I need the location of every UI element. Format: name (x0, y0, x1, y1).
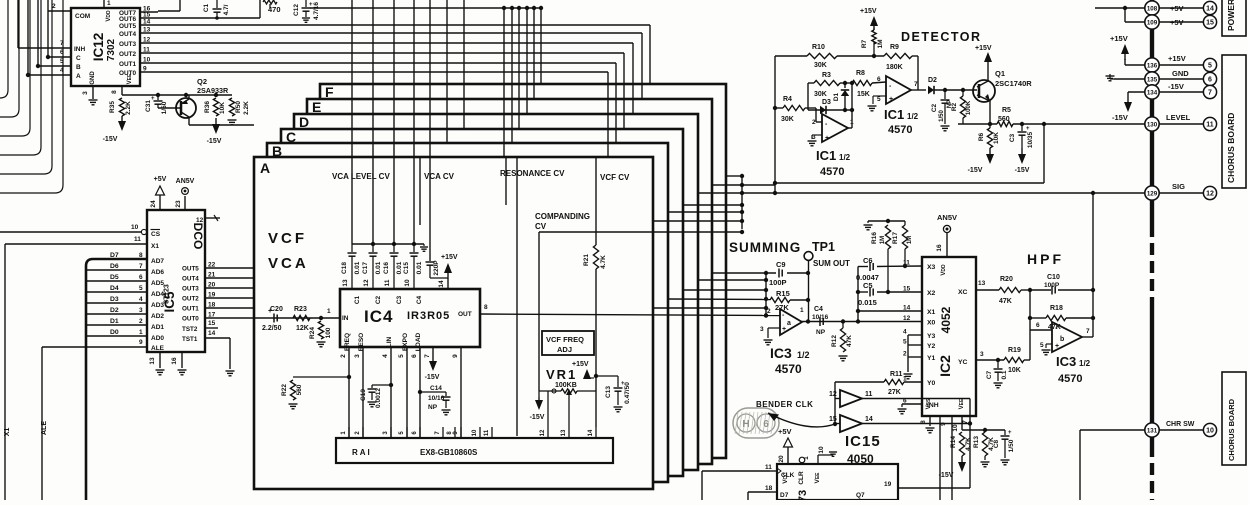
svg-text:3: 3 (82, 91, 89, 95)
svg-text:24: 24 (150, 200, 157, 208)
svg-text:AD7: AD7 (151, 258, 164, 265)
svg-text:R21: R21 (583, 254, 590, 266)
svg-text:ALE: ALE (41, 421, 48, 435)
svg-text:0.0012: 0.0012 (375, 388, 382, 408)
svg-text:+15V: +15V (1168, 54, 1186, 63)
svg-text:VR1: VR1 (546, 367, 577, 382)
svg-text:+15V: +15V (860, 8, 877, 15)
svg-text:C: C (286, 129, 296, 145)
svg-text:R7: R7 (861, 39, 868, 48)
svg-text:RESO: RESO (358, 333, 365, 351)
svg-text:DCO: DCO (191, 223, 205, 250)
svg-text:11: 11 (484, 429, 490, 436)
svg-text:AD6: AD6 (151, 269, 164, 276)
svg-text:100P: 100P (1044, 282, 1060, 289)
svg-text:R17: R17 (892, 232, 899, 244)
svg-text:DETECTOR: DETECTOR (901, 30, 982, 44)
svg-text:R4: R4 (783, 96, 792, 103)
svg-text:X1: X1 (4, 428, 11, 437)
svg-text:2: 2 (812, 119, 816, 126)
svg-text:Q2: Q2 (197, 77, 207, 86)
svg-text:20: 20 (778, 455, 785, 463)
svg-text:4570: 4570 (888, 124, 912, 136)
svg-text:100P: 100P (769, 278, 787, 287)
svg-text:OUT1: OUT1 (182, 306, 199, 313)
svg-text:FREQ: FREQ (344, 333, 351, 351)
svg-text:10: 10 (143, 57, 151, 64)
svg-text:14: 14 (208, 330, 216, 337)
svg-text:-15V: -15V (530, 414, 545, 421)
svg-text:100K: 100K (966, 100, 972, 115)
svg-text:4.7K: 4.7K (965, 437, 972, 451)
svg-text:CHR SW: CHR SW (1166, 421, 1195, 428)
svg-text:D1: D1 (833, 92, 840, 101)
svg-text:CHORUS BOARD: CHORUS BOARD (1227, 398, 1236, 461)
svg-text:CHORUS BOARD: CHORUS BOARD (1226, 113, 1236, 183)
svg-text:R10: R10 (812, 44, 825, 51)
svg-text:130: 130 (1147, 121, 1158, 128)
svg-text:IC12: IC12 (91, 33, 106, 62)
svg-text:D3: D3 (110, 296, 119, 303)
svg-text:-15V: -15V (103, 136, 118, 143)
svg-text:1/2: 1/2 (839, 153, 851, 162)
svg-text:H: H (742, 419, 749, 430)
svg-text:1M: 1M (880, 236, 886, 244)
svg-text:OUT1: OUT1 (119, 61, 136, 68)
svg-text:1/50: 1/50 (161, 101, 168, 114)
svg-text:15K: 15K (857, 91, 870, 98)
svg-text:VEE: VEE (959, 398, 965, 409)
svg-text:4570: 4570 (820, 166, 844, 178)
svg-text:15: 15 (829, 416, 837, 423)
svg-text:4: 4 (903, 329, 907, 336)
svg-text:4570: 4570 (775, 362, 802, 376)
svg-text:6: 6 (139, 274, 143, 281)
svg-text:9: 9 (143, 66, 147, 73)
svg-text:NP: NP (816, 329, 826, 336)
svg-text:HPF: HPF (1027, 251, 1064, 267)
svg-text:23: 23 (175, 200, 182, 208)
svg-text:109: 109 (1147, 19, 1158, 26)
svg-text:4570: 4570 (1058, 373, 1082, 385)
svg-text:Y3: Y3 (927, 333, 936, 340)
svg-text:VCA: VCA (268, 255, 309, 272)
svg-text:10: 10 (472, 429, 478, 436)
svg-text:B: B (272, 143, 282, 159)
svg-text:+: + (1008, 430, 1012, 436)
svg-text:OUT0: OUT0 (119, 70, 136, 77)
svg-text:VCF: VCF (268, 230, 307, 247)
svg-text:R14: R14 (950, 436, 957, 448)
svg-text:180K: 180K (886, 64, 903, 71)
svg-text:EXPO: EXPO (402, 333, 409, 351)
svg-text:C1: C1 (203, 3, 210, 12)
svg-text:R11: R11 (890, 371, 903, 378)
svg-text:R15: R15 (776, 289, 790, 298)
svg-text:R5: R5 (1002, 107, 1011, 114)
svg-text:C20: C20 (270, 306, 283, 313)
svg-text:VCF FREQ: VCF FREQ (546, 335, 584, 344)
svg-text:R12: R12 (831, 335, 838, 347)
svg-text:16: 16 (936, 244, 943, 252)
svg-text:R13: R13 (973, 436, 980, 448)
svg-text:+15V: +15V (1110, 34, 1128, 43)
svg-text:R2: R2 (951, 102, 958, 111)
svg-text:R50: R50 (235, 101, 242, 113)
svg-text:11: 11 (134, 236, 141, 243)
svg-text:1/50: 1/50 (1008, 439, 1015, 452)
svg-text:3: 3 (980, 351, 984, 358)
svg-text:ALE: ALE (151, 345, 165, 352)
svg-text:+: + (889, 96, 893, 103)
svg-text:XC: XC (958, 289, 968, 296)
svg-text:D6: D6 (110, 263, 119, 270)
svg-text:560: 560 (296, 384, 303, 395)
svg-text:VCF CV: VCF CV (600, 173, 630, 182)
svg-text:2SA933R: 2SA933R (197, 86, 229, 95)
svg-text:OUT2: OUT2 (119, 51, 136, 58)
svg-text:1M: 1M (877, 39, 884, 48)
svg-text:100: 100 (325, 327, 332, 338)
svg-text:C2: C2 (375, 295, 382, 304)
svg-text:SIG: SIG (1172, 182, 1185, 191)
svg-text:COMPANDING: COMPANDING (535, 212, 590, 221)
svg-text:X2: X2 (927, 290, 936, 297)
svg-text:12: 12 (1206, 191, 1214, 198)
svg-text:19: 19 (884, 481, 892, 488)
svg-text:-15V: -15V (939, 472, 954, 479)
svg-text:14: 14 (865, 416, 873, 423)
svg-text:R24: R24 (309, 327, 316, 339)
svg-text:CLR: CLR (798, 471, 805, 485)
svg-text:5: 5 (1208, 63, 1212, 70)
svg-text:C9: C9 (776, 260, 786, 269)
svg-text:IC1: IC1 (884, 107, 904, 122)
svg-text:6: 6 (1036, 322, 1040, 329)
svg-text:47K: 47K (846, 335, 853, 347)
svg-text:10/35: 10/35 (1027, 131, 1034, 148)
svg-text:TST2: TST2 (182, 326, 198, 333)
svg-text:Q1: Q1 (995, 69, 1005, 78)
svg-text:R35: R35 (109, 101, 116, 113)
svg-text:X1: X1 (151, 243, 159, 250)
svg-text:1: 1 (803, 456, 810, 460)
svg-text:-15V: -15V (968, 167, 983, 174)
svg-text:LEVEL: LEVEL (1166, 113, 1191, 122)
svg-text:11: 11 (865, 391, 873, 398)
svg-text:5: 5 (139, 285, 143, 292)
svg-text:D4: D4 (110, 285, 119, 292)
svg-text:+15V: +15V (572, 361, 589, 368)
svg-text:D7: D7 (780, 492, 789, 499)
svg-text:Y1: Y1 (927, 355, 936, 362)
svg-text:8: 8 (484, 304, 488, 311)
svg-text:AD1: AD1 (151, 324, 164, 331)
svg-text:134: 134 (1147, 89, 1158, 96)
svg-text:100KB: 100KB (555, 382, 577, 389)
svg-text:ADJ: ADJ (557, 345, 572, 354)
svg-text:D: D (299, 114, 309, 130)
svg-text:OUT3: OUT3 (119, 41, 136, 48)
svg-text:OUT: OUT (458, 311, 472, 318)
svg-text:0.01: 0.01 (416, 261, 423, 274)
svg-text:15: 15 (1206, 20, 1214, 27)
svg-text:X3: X3 (927, 264, 936, 271)
svg-text:AN5V: AN5V (176, 178, 195, 185)
svg-text:0.1: 0.1 (1001, 370, 1008, 379)
svg-text:4.7/16: 4.7/16 (313, 2, 320, 20)
svg-text:X1: X1 (927, 309, 936, 316)
svg-text:12: 12 (143, 37, 151, 44)
svg-text:VCA CV: VCA CV (424, 172, 455, 181)
svg-text:10/16: 10/16 (428, 395, 445, 402)
svg-text:14: 14 (1206, 6, 1214, 13)
svg-text:6: 6 (411, 354, 418, 358)
svg-text:-15V: -15V (1168, 82, 1184, 91)
svg-text:16: 16 (171, 357, 178, 365)
svg-text:B: B (76, 64, 81, 71)
svg-text:6: 6 (877, 76, 881, 83)
svg-text:RAI: RAI (352, 448, 372, 457)
svg-text:D2: D2 (928, 77, 937, 84)
svg-text:11: 11 (143, 47, 150, 54)
svg-text:1/2: 1/2 (1079, 359, 1091, 368)
svg-text:5: 5 (903, 339, 907, 346)
svg-text:C13: C13 (605, 386, 612, 398)
svg-text:C5: C5 (863, 281, 873, 290)
svg-text:VDD: VDD (106, 10, 112, 22)
svg-text:7: 7 (139, 263, 143, 270)
svg-text:+5V: +5V (154, 176, 167, 183)
svg-text:7: 7 (1086, 328, 1090, 335)
svg-text:EX8-GB10860S: EX8-GB10860S (420, 448, 478, 457)
svg-text:AD5: AD5 (151, 280, 164, 287)
svg-text:C15: C15 (403, 262, 410, 274)
svg-text:10K: 10K (219, 102, 226, 114)
svg-text:11: 11 (384, 279, 391, 286)
svg-text:+: + (151, 96, 155, 102)
svg-text:2SC1740R: 2SC1740R (995, 79, 1032, 88)
svg-text:10K: 10K (1008, 367, 1021, 374)
svg-text:-15V: -15V (207, 138, 222, 145)
svg-text:R22: R22 (281, 384, 288, 396)
svg-text:IC4: IC4 (364, 307, 393, 326)
svg-text:108: 108 (1147, 5, 1158, 12)
svg-text:C7: C7 (986, 370, 993, 379)
svg-text:OUT4: OUT4 (119, 31, 136, 38)
svg-text:1: 1 (800, 307, 804, 314)
svg-text:Y0: Y0 (927, 380, 936, 387)
svg-text:13: 13 (149, 357, 156, 365)
svg-text:R19: R19 (1008, 347, 1021, 354)
svg-text:OUT0: OUT0 (182, 316, 199, 323)
svg-text:R6: R6 (978, 132, 985, 141)
svg-text:2.2K: 2.2K (125, 101, 132, 115)
svg-text:14: 14 (143, 19, 151, 26)
svg-text:A: A (260, 160, 270, 176)
svg-text:CV: CV (535, 222, 547, 231)
svg-text:OUT5: OUT5 (182, 266, 199, 273)
svg-text:136: 136 (1147, 62, 1158, 69)
svg-text:R18: R18 (1050, 305, 1063, 312)
svg-text:R36: R36 (204, 101, 211, 113)
svg-text:GND: GND (1172, 69, 1189, 78)
svg-text:INH: INH (927, 402, 939, 409)
svg-text:C17: C17 (362, 262, 369, 274)
svg-text:4.7/: 4.7/ (223, 4, 230, 15)
svg-text:C14: C14 (430, 385, 442, 392)
svg-text:10/16: 10/16 (812, 314, 829, 321)
svg-text:C4: C4 (814, 306, 823, 313)
svg-text:5: 5 (398, 354, 405, 358)
svg-text:-15V: -15V (425, 374, 440, 381)
svg-text:R23: R23 (294, 306, 307, 313)
svg-text:7302: 7302 (106, 38, 117, 61)
svg-text:10: 10 (952, 424, 959, 432)
svg-text:IR3R05: IR3R05 (407, 310, 450, 322)
svg-text:POWER: POWER (1226, 0, 1236, 31)
svg-text:C1: C1 (354, 295, 361, 304)
svg-text:10: 10 (1206, 428, 1214, 435)
svg-text:IC15: IC15 (845, 433, 881, 450)
svg-text:AN5V: AN5V (937, 213, 957, 222)
svg-text:13: 13 (342, 279, 349, 287)
svg-text:30K: 30K (814, 91, 827, 98)
svg-text:11: 11 (1206, 122, 1214, 129)
svg-text:0.015: 0.015 (858, 298, 877, 307)
svg-text:2.2K: 2.2K (243, 101, 250, 115)
svg-text:R16: R16 (871, 232, 878, 244)
svg-text:b: b (1060, 336, 1064, 343)
svg-text:D5: D5 (110, 274, 119, 281)
svg-text:12: 12 (903, 315, 911, 322)
svg-text:IC3: IC3 (1056, 354, 1076, 369)
svg-text:15: 15 (143, 12, 151, 19)
svg-text:-15V: -15V (1112, 113, 1128, 122)
svg-text:OUT4: OUT4 (182, 276, 199, 283)
svg-text:SUMMING: SUMMING (729, 240, 801, 255)
svg-text:13: 13 (143, 27, 151, 34)
svg-text:AD2: AD2 (151, 313, 164, 320)
svg-text:4052: 4052 (939, 306, 953, 333)
svg-text:0.01: 0.01 (354, 261, 361, 274)
svg-text:VDD: VDD (941, 264, 947, 276)
svg-text:R8: R8 (856, 70, 865, 77)
svg-text:IN: IN (342, 315, 349, 322)
svg-text:30K: 30K (814, 62, 827, 69)
svg-text:R3: R3 (822, 72, 831, 79)
svg-text:10: 10 (131, 224, 139, 231)
svg-text:0.47/50: 0.47/50 (624, 382, 631, 404)
svg-text:14: 14 (438, 280, 445, 288)
svg-text:C10: C10 (1047, 274, 1060, 281)
svg-text:CS: CS (151, 231, 161, 238)
svg-text:INH: INH (74, 46, 86, 53)
svg-text:3: 3 (139, 307, 143, 314)
svg-text:12: 12 (363, 279, 370, 287)
svg-text:1M: 1M (907, 236, 913, 244)
svg-text:73: 73 (797, 490, 809, 500)
svg-text:+15V: +15V (975, 45, 992, 52)
svg-text:a: a (787, 320, 791, 327)
svg-text:LOAD: LOAD (415, 332, 422, 351)
svg-text:OUT6: OUT6 (119, 16, 136, 23)
svg-text:X0: X0 (927, 320, 936, 327)
svg-text:+: + (825, 135, 829, 142)
svg-text:4: 4 (139, 296, 143, 303)
svg-text:13: 13 (561, 429, 567, 436)
svg-text:OUT3: OUT3 (182, 286, 199, 293)
svg-text:YC: YC (958, 359, 968, 366)
svg-text:LIN: LIN (386, 336, 393, 347)
svg-text:C8: C8 (993, 439, 1000, 448)
svg-text:10: 10 (818, 446, 825, 454)
svg-text:6: 6 (763, 419, 769, 430)
svg-text:2: 2 (139, 318, 143, 325)
svg-text:RESONANCE CV: RESONANCE CV (500, 169, 565, 178)
svg-text:9: 9 (452, 354, 459, 358)
svg-text:OUT2: OUT2 (182, 296, 199, 303)
svg-text:IC3: IC3 (770, 345, 792, 361)
svg-text:C6: C6 (863, 256, 873, 265)
svg-text:C2: C2 (931, 103, 938, 112)
svg-text:18: 18 (765, 485, 773, 492)
svg-text:129: 129 (1147, 190, 1158, 197)
svg-text:C3: C3 (396, 295, 403, 304)
svg-text:3: 3 (760, 326, 764, 333)
svg-text:-15V: -15V (1015, 167, 1030, 174)
svg-text:87123: 87123 (164, 284, 171, 304)
svg-text:D3: D3 (822, 99, 831, 106)
svg-text:CLK: CLK (781, 472, 795, 479)
svg-text:2: 2 (767, 308, 771, 315)
svg-text:D1: D1 (110, 318, 119, 325)
svg-text:C4: C4 (416, 295, 423, 304)
svg-text:C16: C16 (383, 262, 390, 274)
svg-text:8: 8 (111, 90, 118, 94)
svg-text:2: 2 (903, 351, 907, 358)
svg-text:3: 3 (354, 354, 361, 358)
svg-text:12K: 12K (296, 325, 309, 332)
svg-text:7: 7 (914, 81, 918, 88)
svg-text:E: E (312, 99, 321, 115)
svg-text:8: 8 (139, 252, 143, 259)
svg-text:NP: NP (428, 404, 438, 411)
svg-text:D0: D0 (110, 329, 119, 336)
svg-text:+: + (1055, 343, 1059, 350)
svg-text:4: 4 (382, 354, 389, 358)
svg-text:13: 13 (978, 280, 986, 287)
svg-text:1/2: 1/2 (907, 112, 919, 121)
svg-text:OUT5: OUT5 (119, 23, 136, 30)
svg-text:VEE: VEE (814, 472, 821, 484)
svg-text:+15V: +15V (441, 254, 458, 261)
svg-text:12: 12 (196, 217, 204, 224)
svg-text:R20: R20 (1000, 276, 1013, 283)
svg-text:4.7K: 4.7K (600, 255, 607, 269)
svg-text:47K: 47K (999, 298, 1012, 305)
svg-text:C19: C19 (360, 389, 367, 401)
svg-text:TST1: TST1 (182, 336, 198, 343)
svg-text:10K: 10K (993, 132, 1000, 144)
svg-text:220P: 220P (433, 260, 440, 276)
svg-text:131: 131 (1147, 427, 1158, 434)
svg-text:135: 135 (1147, 76, 1158, 83)
svg-text:11: 11 (765, 464, 772, 471)
svg-text:10: 10 (404, 279, 411, 287)
svg-text:2.2/50: 2.2/50 (262, 325, 282, 332)
svg-text:1: 1 (139, 329, 143, 336)
